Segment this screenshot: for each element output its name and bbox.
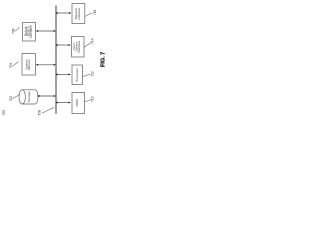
- svg-text:716: 716: [93, 10, 97, 16]
- svg-text:ROM: ROM: [75, 99, 79, 107]
- box U5 input device interface 714: [72, 37, 85, 58]
- arrowhead processor wire at box U6: [69, 74, 71, 76]
- box U2 system memory 704: [22, 54, 36, 76]
- svg-text:Memory: Memory: [27, 59, 31, 70]
- svg-text:FIG. 7: FIG. 7: [100, 52, 106, 67]
- leader line numeral 716: [86, 13, 93, 16]
- leader line numeral 702: [13, 95, 20, 99]
- leader line numeral 704: [13, 62, 19, 67]
- cylinder U3 storage 702 end cap: [19, 90, 25, 104]
- leader line numeral 708 to bus: [42, 107, 55, 113]
- leader line numeral 712: [82, 74, 90, 76]
- arrowhead storage wire at cylinder U3: [37, 95, 39, 97]
- svg-text:706: 706: [12, 28, 16, 34]
- wire bus to input device interface 714: [57, 44, 70, 46]
- arrowhead ROM wire at bus junction: [55, 102, 57, 104]
- box U4 network interface 716: [72, 4, 85, 24]
- svg-text:700: 700: [2, 110, 6, 116]
- wire storage 702 to bus: [37, 95, 55, 97]
- arrowhead network wire at box U4: [69, 12, 71, 14]
- svg-text:Interface: Interface: [29, 25, 33, 38]
- wire bus to ROM 710: [57, 102, 70, 104]
- wire system memory 704 to bus: [37, 64, 56, 66]
- box U6 processor 712: [72, 65, 83, 85]
- cylinder U3 storage 702 body: [22, 90, 38, 104]
- svg-text:Storage: Storage: [27, 91, 31, 102]
- arrowhead ROM wire at box U7: [69, 102, 71, 104]
- arrowhead input wire at bus junction: [55, 44, 57, 46]
- arrowhead processor wire at bus junction: [55, 74, 57, 76]
- wire bus to network interface 716: [57, 12, 70, 14]
- svg-text:Processor: Processor: [75, 68, 79, 82]
- leader line numeral 714: [85, 43, 92, 48]
- svg-text:704: 704: [9, 63, 13, 69]
- svg-text:Interface: Interface: [77, 8, 81, 20]
- box U7 ROM 710: [72, 93, 85, 114]
- bus 708 (system bus line): [55, 6, 57, 115]
- svg-text:712: 712: [91, 71, 95, 77]
- svg-text:708: 708: [38, 110, 42, 116]
- arrowhead memory wire at box U2: [36, 64, 38, 66]
- box U1 output device interface 706: [23, 23, 36, 42]
- arrowhead output wire at box U1: [36, 30, 38, 32]
- wire output device interface 706 to bus: [37, 30, 56, 32]
- arrowhead input wire at box U5: [69, 44, 71, 46]
- svg-text:Interface: Interface: [77, 41, 81, 53]
- arrowhead storage wire at bus junction: [54, 95, 56, 97]
- arrowhead network wire at bus junction: [55, 12, 57, 14]
- svg-text:710: 710: [91, 96, 95, 102]
- wire bus to processor 712: [57, 74, 70, 76]
- leader line numeral 706: [15, 27, 19, 31]
- arrowhead memory wire at bus junction: [54, 64, 56, 66]
- svg-text:702: 702: [9, 96, 13, 102]
- leader line numeral 710: [85, 100, 91, 102]
- svg-text:714: 714: [91, 38, 95, 44]
- arrowhead output wire at bus junction: [54, 30, 56, 32]
